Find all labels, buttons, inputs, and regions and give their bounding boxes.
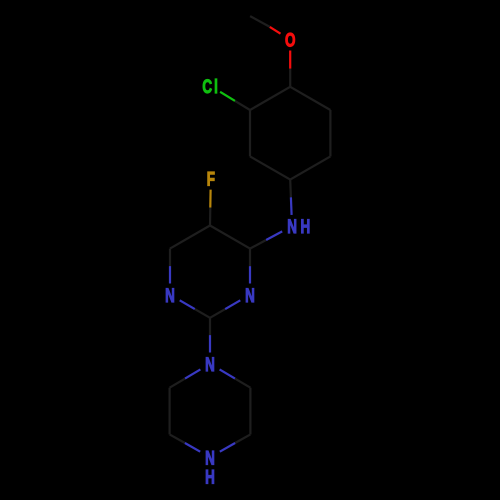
- bond pyrimidine C5-C6: [170, 226, 210, 249]
- svg-text:N: N: [165, 284, 175, 306]
- bond piperazine N-C upper-right: [220, 369, 235, 378]
- svg-text:N: N: [205, 353, 215, 375]
- bond pyrimidine N1-C2: [180, 300, 195, 309]
- bond benzene C4-C3: [250, 87, 290, 110]
- bond piperazine C-C left: [169, 388, 171, 435]
- svg-text:O: O: [285, 29, 296, 51]
- svg-text:N: N: [245, 284, 255, 306]
- bond piperazine N-C upper-left: [185, 369, 200, 378]
- bond pyrimidine C2-N3: [210, 309, 225, 318]
- bond CH3-O (methoxy): [250, 16, 270, 27]
- bond benzene C2-C1: [250, 156, 290, 179]
- bond N-C4 (amine to pyrimidine): [266, 231, 282, 240]
- bond benzene C6-C5: [329, 110, 331, 156]
- bond pyrimidine C6-N1: [169, 249, 171, 267]
- bond O-C4 (aryl ether): [289, 51, 291, 69]
- bond benzene C1-C6: [290, 156, 330, 179]
- bond benzene C3-C2: [249, 110, 251, 156]
- svg-text:N: N: [287, 216, 297, 238]
- svg-text:H: H: [300, 216, 310, 238]
- bond pyrimidine C4-C5: [210, 226, 250, 249]
- bond pyrimidine N3-C4: [249, 266, 251, 283]
- svg-text:H: H: [205, 466, 215, 488]
- bond C1-N (anilino): [289, 180, 292, 198]
- bond Cl-C3 (chloro): [220, 92, 235, 101]
- bond piperazine C-NH right: [235, 434, 250, 443]
- bond benzene C5-C4: [290, 87, 330, 110]
- bond F-C5 (fluoro): [209, 190, 212, 208]
- bond piperazine C-C right: [249, 388, 251, 435]
- svg-text:F: F: [207, 168, 215, 190]
- svg-text:Cl: Cl: [202, 76, 220, 98]
- bond piperazine C-NH left: [170, 434, 185, 443]
- bond C2-N (pyrimidine to piperazine): [209, 318, 211, 335]
